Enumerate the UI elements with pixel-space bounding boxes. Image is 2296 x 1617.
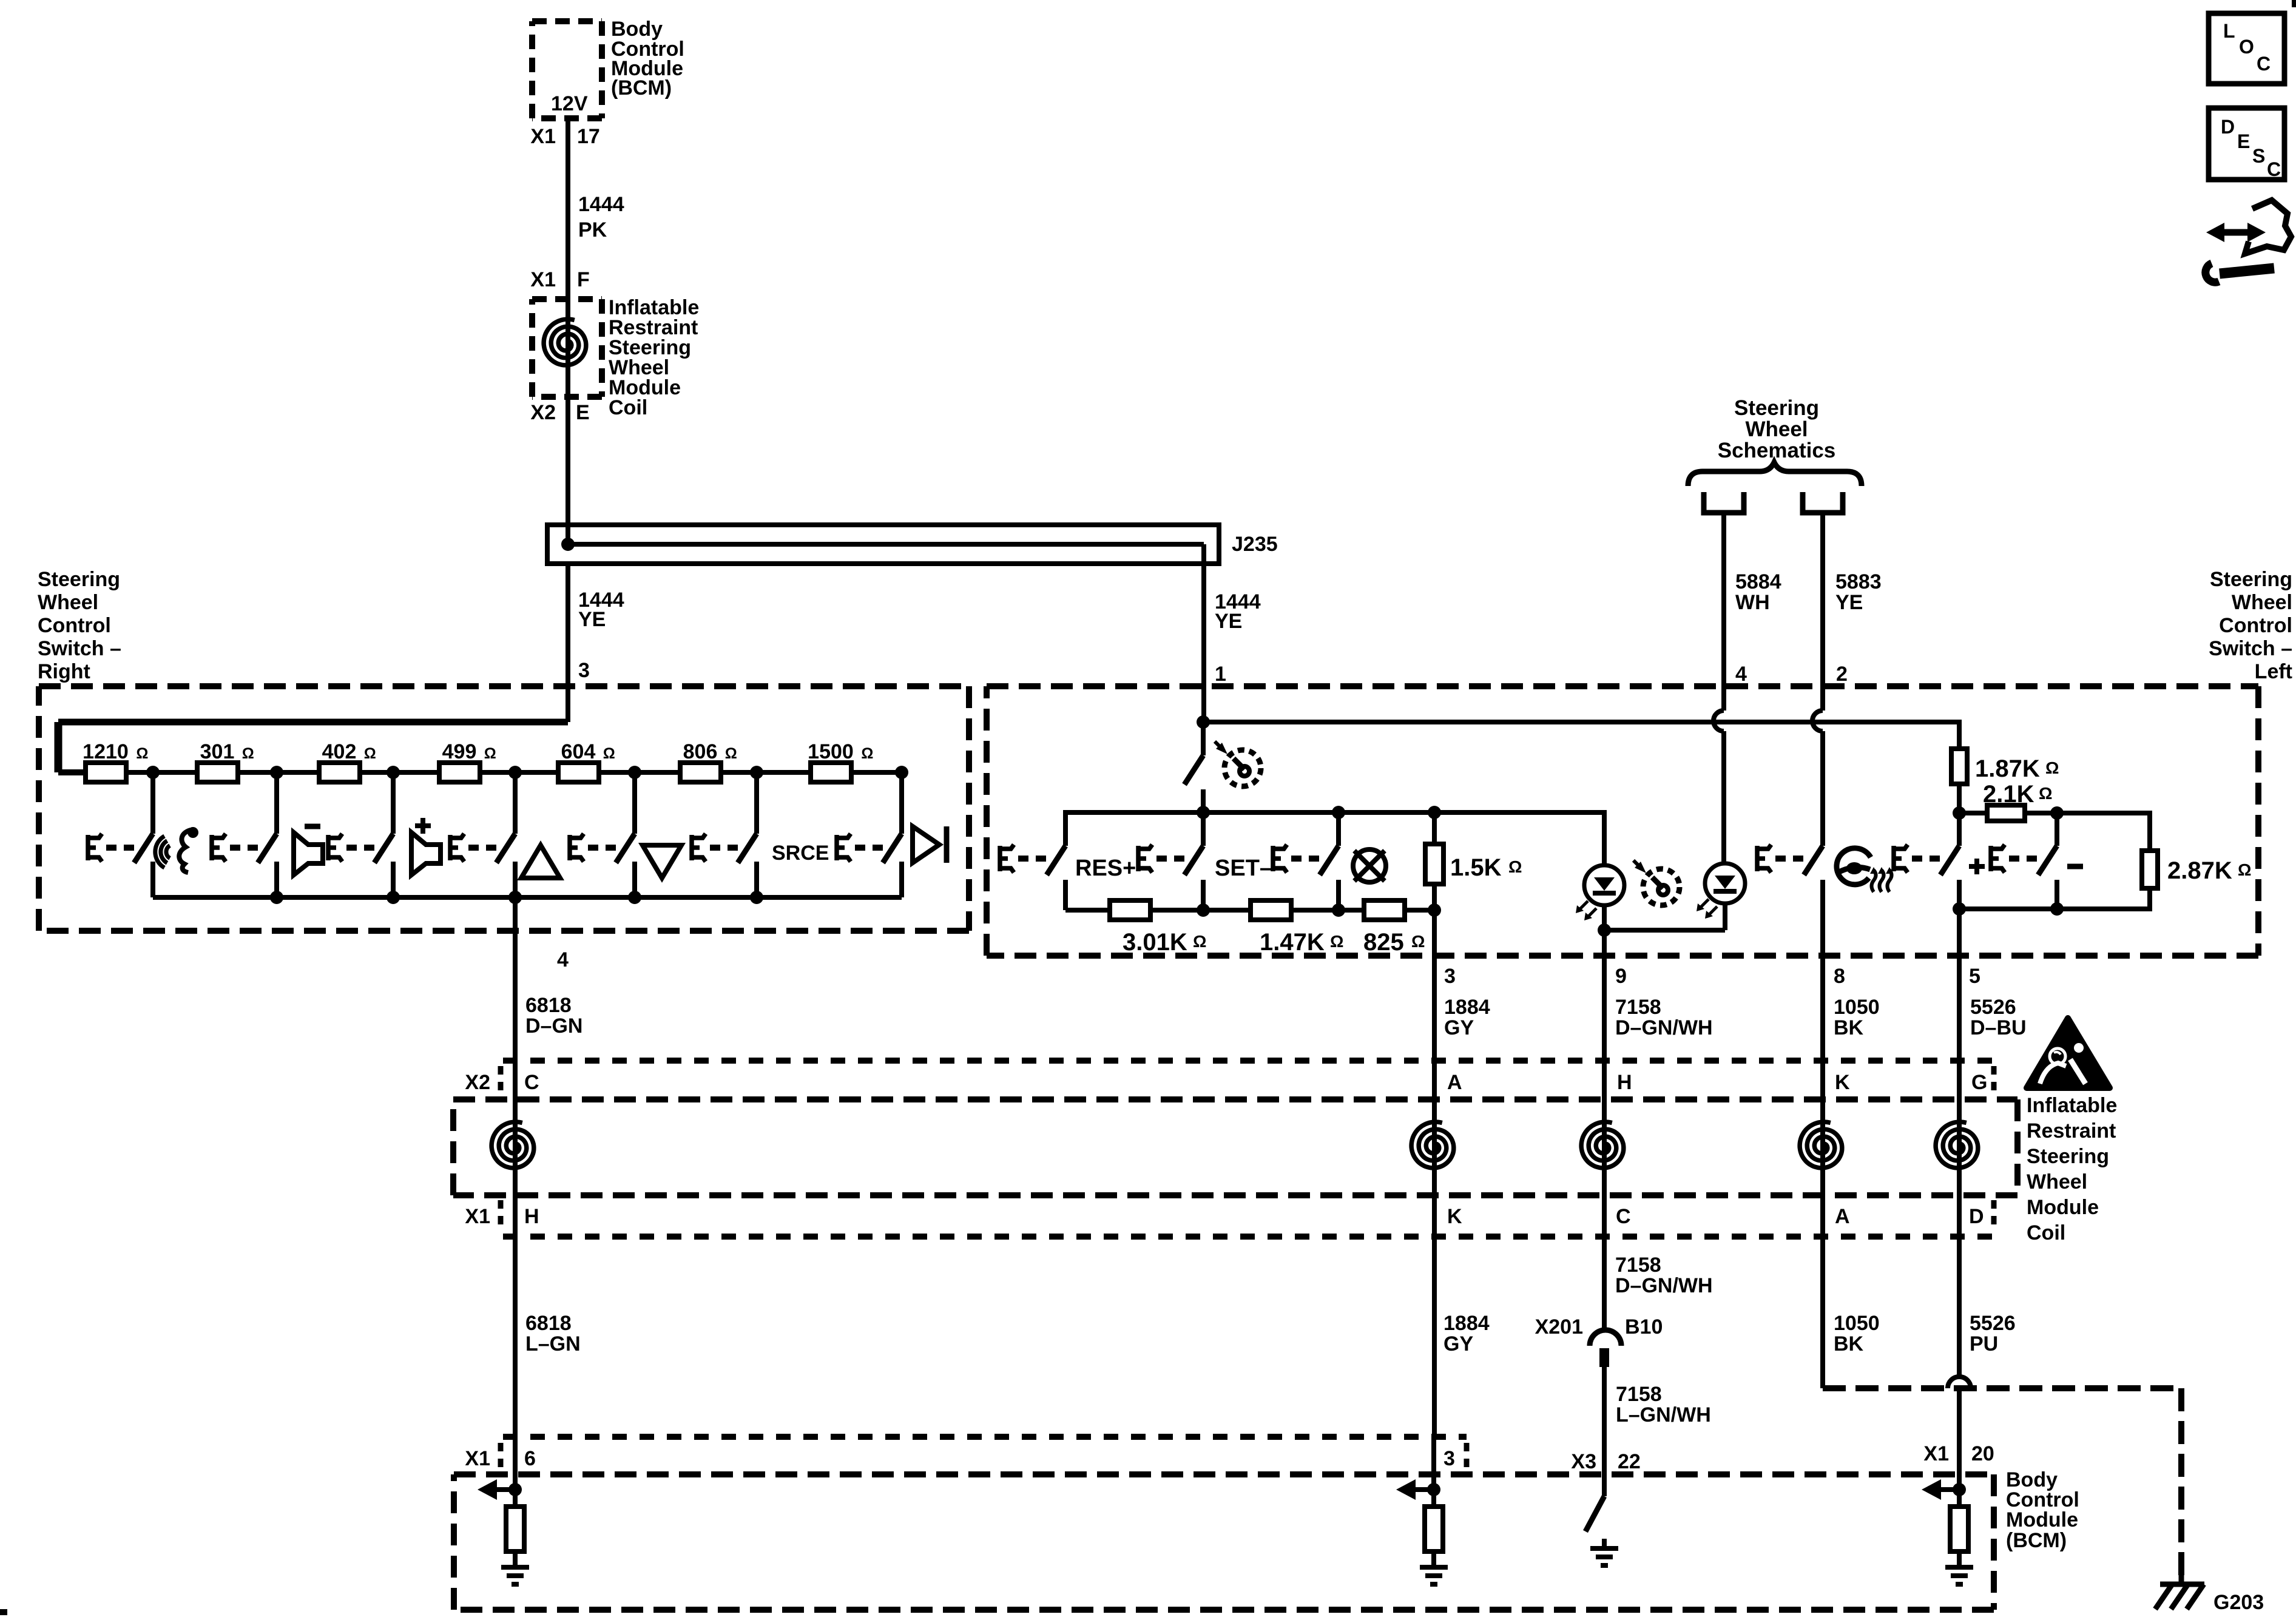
svg-text:6: 6 [524, 1447, 536, 1470]
svg-text:X1: X1 [1923, 1442, 1949, 1465]
label 5883 YE [1835, 570, 1882, 614]
label 1050 BK (upper) [1834, 996, 1880, 1039]
switch volume-down [212, 772, 277, 897]
label 5884 WH [1735, 570, 1781, 614]
svg-text:Wheel: Wheel [2232, 591, 2292, 614]
switch cancel [1273, 812, 1339, 910]
label SET- [1215, 856, 1272, 881]
svg-text:X2: X2 [530, 401, 556, 424]
wire through coil [566, 299, 570, 397]
pin K (X2) [1835, 1071, 1850, 1094]
svg-text:GY: GY [1443, 1332, 1473, 1355]
svg-text:Ω: Ω [136, 745, 148, 762]
pin H (X2) [1617, 1071, 1632, 1094]
svg-text:Ω: Ω [1193, 932, 1206, 951]
svg-text:5884: 5884 [1735, 570, 1781, 593]
label minus sign [2067, 864, 2083, 869]
wire cruise bus [1063, 810, 1607, 815]
svg-text:(BCM): (BCM) [2006, 1529, 2067, 1552]
icon airbag warning triangle [2027, 1018, 2110, 1088]
pin X1 17 [530, 125, 599, 148]
BCM input arrow (wire 6818) [478, 1437, 522, 1500]
icon hand and wrench [2206, 200, 2291, 282]
switch-left dashed box [987, 686, 2258, 956]
junction block J235 box [547, 525, 1219, 564]
svg-text:J235: J235 [1232, 533, 1278, 556]
pin D (X1) [1969, 1200, 1994, 1230]
coil L2 (wire 6818) [491, 1061, 534, 1437]
switch next-track [837, 772, 902, 897]
svg-text:1050: 1050 [1834, 996, 1880, 1019]
label 2.87K ohm [2167, 857, 2251, 884]
svg-text:1.47K: 1.47K [1260, 929, 1325, 956]
icon DESC box [2209, 108, 2284, 180]
label 1.87K ohm [1975, 755, 2059, 782]
hidden wire to G203 [1823, 1388, 2181, 1580]
label RES+ [1075, 856, 1136, 881]
icon cancel lamp [1353, 849, 1386, 882]
connector X201 B10 [1590, 1330, 1621, 1367]
switch cruise on-off [1184, 722, 1203, 812]
resistor 1500 ohm [808, 740, 873, 782]
resistor 499 ohm [439, 740, 496, 782]
svg-text:(BCM): (BCM) [611, 76, 672, 100]
connector to steering wheel schematics (right) [1803, 492, 1843, 513]
brace steering wheel schematics [1688, 462, 1862, 486]
svg-text:O: O [2239, 36, 2254, 58]
switch BCM X3-22 [1585, 1496, 1604, 1531]
svg-text:D: D [1969, 1205, 1984, 1228]
svg-text:402: 402 [322, 740, 357, 763]
svg-text:G203: G203 [2213, 1591, 2264, 1614]
switch voice [88, 772, 153, 897]
resistor 604 ohm [558, 740, 615, 782]
wire 1050 BK to ground path [1820, 956, 1825, 1388]
svg-text:D–BU: D–BU [1970, 1016, 2027, 1039]
pin 3 switch-left [1444, 965, 1456, 988]
node 2.1K left junction [1953, 806, 1966, 820]
node bus j3 [1428, 806, 1441, 819]
node row j2 [1332, 903, 1345, 917]
svg-text:C: C [2257, 53, 2271, 75]
svg-text:5883: 5883 [1835, 570, 1882, 593]
svg-text:WH: WH [1735, 591, 1770, 614]
svg-text:3: 3 [1443, 1447, 1455, 1470]
label X1 20 [1923, 1442, 1994, 1465]
resistor 1.87K ohm [1951, 720, 1967, 813]
label 6818 D-GN [525, 994, 582, 1038]
svg-text:2: 2 [1836, 663, 1848, 686]
svg-text:Schematics: Schematics [1718, 439, 1836, 462]
svg-text:1050: 1050 [1834, 1312, 1880, 1335]
node row j3 pin3 [1428, 903, 1441, 917]
wire chain segment [721, 770, 811, 775]
svg-text:Inflatable: Inflatable [2027, 1094, 2117, 1117]
pin A (X2) [1447, 1071, 1462, 1094]
label 12V [551, 92, 588, 115]
svg-text:D–GN: D–GN [525, 1014, 582, 1038]
svg-text:806: 806 [683, 740, 718, 763]
pin H (X1) [524, 1205, 539, 1228]
node chain junction [508, 766, 522, 779]
wire 5884 WH pin 4 [1714, 513, 1724, 865]
node bus junction [270, 891, 283, 904]
label B10 [1625, 1315, 1663, 1338]
svg-text:Steering: Steering [2027, 1145, 2109, 1168]
svg-text:L: L [2223, 20, 2235, 42]
svg-text:9: 9 [1615, 965, 1627, 988]
svg-text:E: E [576, 401, 590, 424]
icon gauge cruise indicator [1633, 860, 1680, 905]
label SRCE [772, 842, 829, 865]
switch minus [1991, 813, 2057, 909]
svg-text:C: C [524, 1071, 539, 1094]
svg-text:SRCE: SRCE [772, 842, 829, 865]
wire chain segment [126, 770, 197, 775]
node main junction pin1 [1197, 715, 1210, 729]
svg-text:22: 22 [1618, 1450, 1641, 1473]
node chain junction [146, 766, 160, 779]
svg-text:BK: BK [1834, 1016, 1864, 1039]
resistor 2.87K ohm [2057, 811, 2158, 911]
label 1444 PK [578, 193, 624, 241]
diode LED2 indicator [1697, 863, 1745, 930]
svg-text:Ω: Ω [242, 745, 254, 762]
wire 1444 YE coil to J235 [566, 397, 570, 544]
node bus j2 [1332, 806, 1345, 819]
label 825 ohm [1363, 929, 1425, 956]
switch plus [1894, 813, 1959, 909]
svg-text:7158: 7158 [1615, 1254, 1661, 1277]
ground G203 chassis symbol [2155, 1575, 2204, 1609]
svg-text:6818: 6818 [525, 1312, 572, 1335]
label X1 [465, 1200, 501, 1230]
svg-text:L–GN/WH: L–GN/WH [1616, 1403, 1711, 1426]
svg-text:X1: X1 [530, 125, 556, 148]
svg-text:C: C [1616, 1205, 1631, 1228]
label Body Control Module (BCM) bottom [2006, 1468, 2079, 1552]
wire 5526 pin 5 down [1948, 909, 1971, 1474]
svg-text:Coil: Coil [609, 396, 647, 419]
pin 3 (X1) [1443, 1443, 1467, 1473]
svg-text:D: D [2221, 116, 2235, 138]
svg-text:Control: Control [2219, 614, 2292, 637]
wire main horizontal switch-left [1203, 720, 1962, 724]
svg-text:7158: 7158 [1616, 1383, 1662, 1406]
svg-text:Ω: Ω [1330, 932, 1343, 951]
svg-text:Right: Right [38, 660, 90, 683]
ground (6818) [501, 1567, 529, 1584]
svg-text:17: 17 [577, 125, 600, 148]
resistor 1.5K ohm [1425, 812, 1443, 910]
resistor 825 ohm [1364, 900, 1405, 920]
svg-text:604: 604 [561, 740, 596, 763]
resistor BCM pulldown (1884) [1425, 1437, 1443, 1567]
svg-text:Module: Module [2006, 1508, 2078, 1531]
resistor 1210 ohm [83, 740, 148, 782]
pin 1 switch-left [1215, 663, 1226, 686]
label Steering Wheel Control Switch - Right [38, 568, 121, 683]
pin 9 switch-left [1615, 965, 1627, 988]
svg-text:20: 20 [1971, 1442, 1994, 1465]
connector X1 bottom row line [503, 1434, 1467, 1440]
label 7158 D-GN/WH (lower) [1615, 1254, 1713, 1297]
ground (X3-22) [1590, 1539, 1618, 1565]
label J235 [1232, 533, 1278, 556]
svg-text:X1: X1 [465, 1447, 490, 1470]
icon speaker minus [294, 826, 323, 875]
wire 5883 YE pin 2 [1812, 513, 1823, 846]
wire 1884 GY pin 3 down [1432, 910, 1437, 1061]
label 5526 D-BU [1970, 996, 2027, 1039]
svg-text:Ω: Ω [364, 745, 376, 762]
svg-text:1444: 1444 [578, 193, 624, 216]
node row j1 [1197, 903, 1210, 917]
wire J235 internal bus [568, 544, 1204, 564]
svg-text:BK: BK [1834, 1332, 1864, 1355]
wire 7158 pin 9 down [1602, 930, 1607, 1330]
svg-text:Wheel: Wheel [38, 591, 98, 614]
svg-text:Ω: Ω [861, 745, 873, 762]
resistor 2.1K ohm [1959, 805, 2057, 821]
svg-text:3.01K: 3.01K [1123, 929, 1187, 956]
svg-text:F: F [577, 268, 590, 291]
ground (5526) [1945, 1567, 1973, 1584]
wire 1444 YE J235 to switch-left pin 1 [1201, 564, 1206, 722]
module coil (top) dashed box [532, 299, 602, 397]
pin 3 switch-right [578, 659, 590, 682]
node bottom j minus [2050, 902, 2064, 916]
wire 1444 YE J235 to switch-right pin 3 [566, 564, 570, 722]
wire minus-plus bottom [1959, 906, 2057, 911]
pin 5 switch-left [1969, 965, 1980, 988]
node LED junction pin9 [1598, 923, 1611, 937]
svg-text:Steering: Steering [2210, 568, 2292, 591]
svg-text:A: A [1447, 1071, 1462, 1094]
pin C (X1) [1616, 1205, 1631, 1228]
node J235 left junction [561, 538, 575, 551]
pin 8 switch-left [1834, 965, 1845, 988]
svg-text:Wheel: Wheel [2027, 1170, 2087, 1193]
label 1884 GY (upper) [1444, 996, 1490, 1039]
svg-text:499: 499 [442, 740, 477, 763]
label G203 [2213, 1591, 2264, 1614]
switch heated steering [1757, 845, 1823, 956]
coil L1 inflatable restraint steering wheel module coil (top) [544, 319, 586, 365]
label Inflatable Restraint Steering Wheel Module Coil (right) [2027, 1094, 2117, 1244]
node bus junction [628, 891, 641, 904]
resistor 1.47K ohm [1251, 900, 1291, 920]
svg-text:PK: PK [578, 218, 607, 241]
node chain junction [895, 766, 908, 779]
connector X2 row line [503, 1058, 1994, 1064]
svg-text:GY: GY [1444, 1016, 1474, 1039]
svg-text:YE: YE [578, 608, 606, 631]
svg-text:RES+: RES+ [1075, 856, 1136, 881]
connector to steering wheel schematics (left) [1704, 492, 1744, 513]
svg-text:4: 4 [557, 948, 569, 971]
label 1884 GY (lower) [1443, 1312, 1490, 1355]
label 1444 YE (left) [578, 589, 624, 631]
svg-text:Ω: Ω [484, 745, 496, 762]
resistor BCM pulldown (5526) [1950, 1490, 1968, 1567]
label X3 22 [1571, 1450, 1640, 1473]
coil L3 (wire 1884) [1411, 1061, 1454, 1437]
pin X1 F [530, 268, 589, 291]
node bottom j pin5 [1953, 902, 1966, 916]
node chain junction [750, 766, 763, 779]
svg-text:Ω: Ω [1411, 932, 1425, 951]
wire 1444 PK from BCM X1-17 to coil X1-F [566, 118, 570, 299]
resistor 301 ohm [197, 740, 254, 782]
svg-text:H: H [1617, 1071, 1632, 1094]
svg-text:Ω: Ω [2045, 758, 2059, 777]
icon seek up triangle [521, 845, 560, 878]
icon voice recognition [155, 827, 198, 873]
wire chain segment [480, 770, 558, 775]
node chain junction [628, 766, 641, 779]
label plus sign [1969, 859, 1985, 874]
svg-text:X3: X3 [1571, 1450, 1596, 1473]
node bus j1 [1197, 806, 1210, 819]
wire chain segment [238, 770, 319, 775]
svg-text:K: K [1835, 1071, 1850, 1094]
node bus junction [387, 891, 400, 904]
svg-text:3: 3 [1444, 965, 1456, 988]
label Steering Wheel Schematics [1718, 396, 1836, 462]
svg-text:Steering: Steering [38, 568, 120, 591]
label 7158 L-GN/WH [1616, 1383, 1711, 1426]
switch RES+ [1000, 810, 1065, 910]
pin 6 (X1) [524, 1447, 536, 1470]
svg-text:S: S [2252, 145, 2265, 167]
svg-text:4: 4 [1735, 663, 1747, 686]
wire 6818 D-GN pin 4 down [508, 891, 522, 1061]
svg-text:1.87K: 1.87K [1975, 755, 2040, 782]
switch source [692, 772, 757, 897]
label 1.5K ohm [1450, 854, 1522, 881]
svg-text:Wheel: Wheel [1745, 417, 1808, 441]
wire 7158 L-GN/WH [1602, 1367, 1607, 1496]
svg-text:5526: 5526 [1970, 1312, 2016, 1335]
page corner mark [0, 1609, 7, 1615]
wire chain segment [599, 770, 680, 775]
svg-text:X1: X1 [530, 268, 556, 291]
svg-text:YE: YE [1835, 591, 1863, 614]
svg-text:1884: 1884 [1444, 996, 1490, 1019]
pin 2 switch-left [1836, 663, 1848, 686]
switch seek-up [450, 772, 515, 897]
switch-right dashed box [39, 686, 969, 931]
pin X2 E [530, 401, 589, 424]
svg-text:X201: X201 [1535, 1315, 1583, 1338]
label 1444 YE (right) [1215, 590, 1261, 633]
diode LED1 cruise indicator [1576, 810, 1624, 930]
svg-text:A: A [1835, 1205, 1850, 1228]
label 3.01K ohm [1123, 929, 1206, 956]
label X201 [1535, 1315, 1583, 1338]
wire feeder switch-right [58, 722, 568, 772]
pin A (X1) [1835, 1205, 1850, 1228]
node 2.1K right junction [2050, 806, 2064, 820]
svg-text:5526: 5526 [1970, 996, 2016, 1019]
svg-text:E: E [2237, 130, 2250, 152]
pin C (X2) [524, 1071, 539, 1094]
svg-text:Ω: Ω [1508, 857, 1522, 876]
module BCM (bottom) dashed box [454, 1474, 1994, 1610]
svg-text:D–GN/WH: D–GN/WH [1615, 1016, 1713, 1039]
svg-text:Coil: Coil [2027, 1221, 2065, 1244]
svg-text:K: K [1447, 1205, 1462, 1228]
svg-text:1884: 1884 [1443, 1312, 1490, 1335]
svg-text:8: 8 [1834, 965, 1845, 988]
label 1.47K ohm [1260, 929, 1343, 956]
svg-text:2.1K: 2.1K [1983, 781, 2034, 808]
label Inflatable Restraint Steering Wheel Module Coil (top) [609, 296, 699, 419]
coil L4 (wire 7158) [1581, 1122, 1624, 1168]
resistor 3.01K ohm [1110, 900, 1150, 920]
svg-text:5: 5 [1969, 965, 1980, 988]
label 2.1K ohm [1983, 781, 2052, 808]
coil L5 (wire 1050) [1800, 1122, 1842, 1168]
label X2 [465, 1066, 501, 1096]
module BCM (top) dashed box [532, 21, 602, 118]
svg-text:6818: 6818 [525, 994, 572, 1017]
svg-text:Switch –: Switch – [38, 637, 121, 660]
svg-text:Left: Left [2255, 660, 2292, 683]
resistor 402 ohm [319, 740, 376, 782]
node bus junction [750, 891, 763, 904]
svg-text:Restraint: Restraint [2027, 1119, 2116, 1143]
svg-text:3: 3 [578, 659, 590, 682]
label Steering Wheel Control Switch - Left [2209, 568, 2292, 683]
switch SET- [1138, 812, 1203, 910]
svg-text:301: 301 [200, 740, 235, 763]
label 1050 BK (lower) [1834, 1312, 1880, 1355]
wire chain segment [360, 770, 439, 775]
resistor BCM pulldown (6818) [506, 1490, 524, 1567]
svg-text:B10: B10 [1625, 1315, 1663, 1338]
svg-text:7158: 7158 [1615, 996, 1661, 1019]
pin K (X1) [1447, 1205, 1462, 1228]
svg-text:L–GN: L–GN [525, 1332, 581, 1355]
pin 4 switch-right [557, 948, 569, 971]
svg-text:G: G [1971, 1071, 1987, 1094]
svg-text:1.5K: 1.5K [1450, 854, 1502, 881]
label 6818 L-GN [525, 1312, 581, 1355]
node chain junction [387, 766, 400, 779]
icon speaker plus [411, 818, 441, 875]
svg-text:SET–: SET– [1215, 856, 1272, 881]
svg-text:Switch –: Switch – [2209, 637, 2292, 660]
switch volume-up [328, 772, 393, 897]
svg-text:H: H [524, 1205, 539, 1228]
svg-text:1: 1 [1215, 663, 1226, 686]
connector X1 row line [503, 1234, 1994, 1240]
coil L6 (wire 5526) [1936, 1061, 1978, 1377]
svg-text:YE: YE [1215, 610, 1242, 633]
svg-text:12V: 12V [551, 92, 588, 115]
label 7158 D-GN/WH (upper) [1615, 996, 1713, 1039]
svg-text:Ω: Ω [725, 745, 737, 762]
svg-text:Control: Control [38, 614, 111, 637]
wire chain end segment [851, 770, 902, 775]
svg-text:1210: 1210 [83, 740, 129, 763]
page corner mark top-right [2292, 0, 2296, 7]
node chain junction [270, 766, 283, 779]
svg-text:D–GN/WH: D–GN/WH [1615, 1274, 1713, 1297]
svg-text:Steering: Steering [1734, 396, 1819, 420]
